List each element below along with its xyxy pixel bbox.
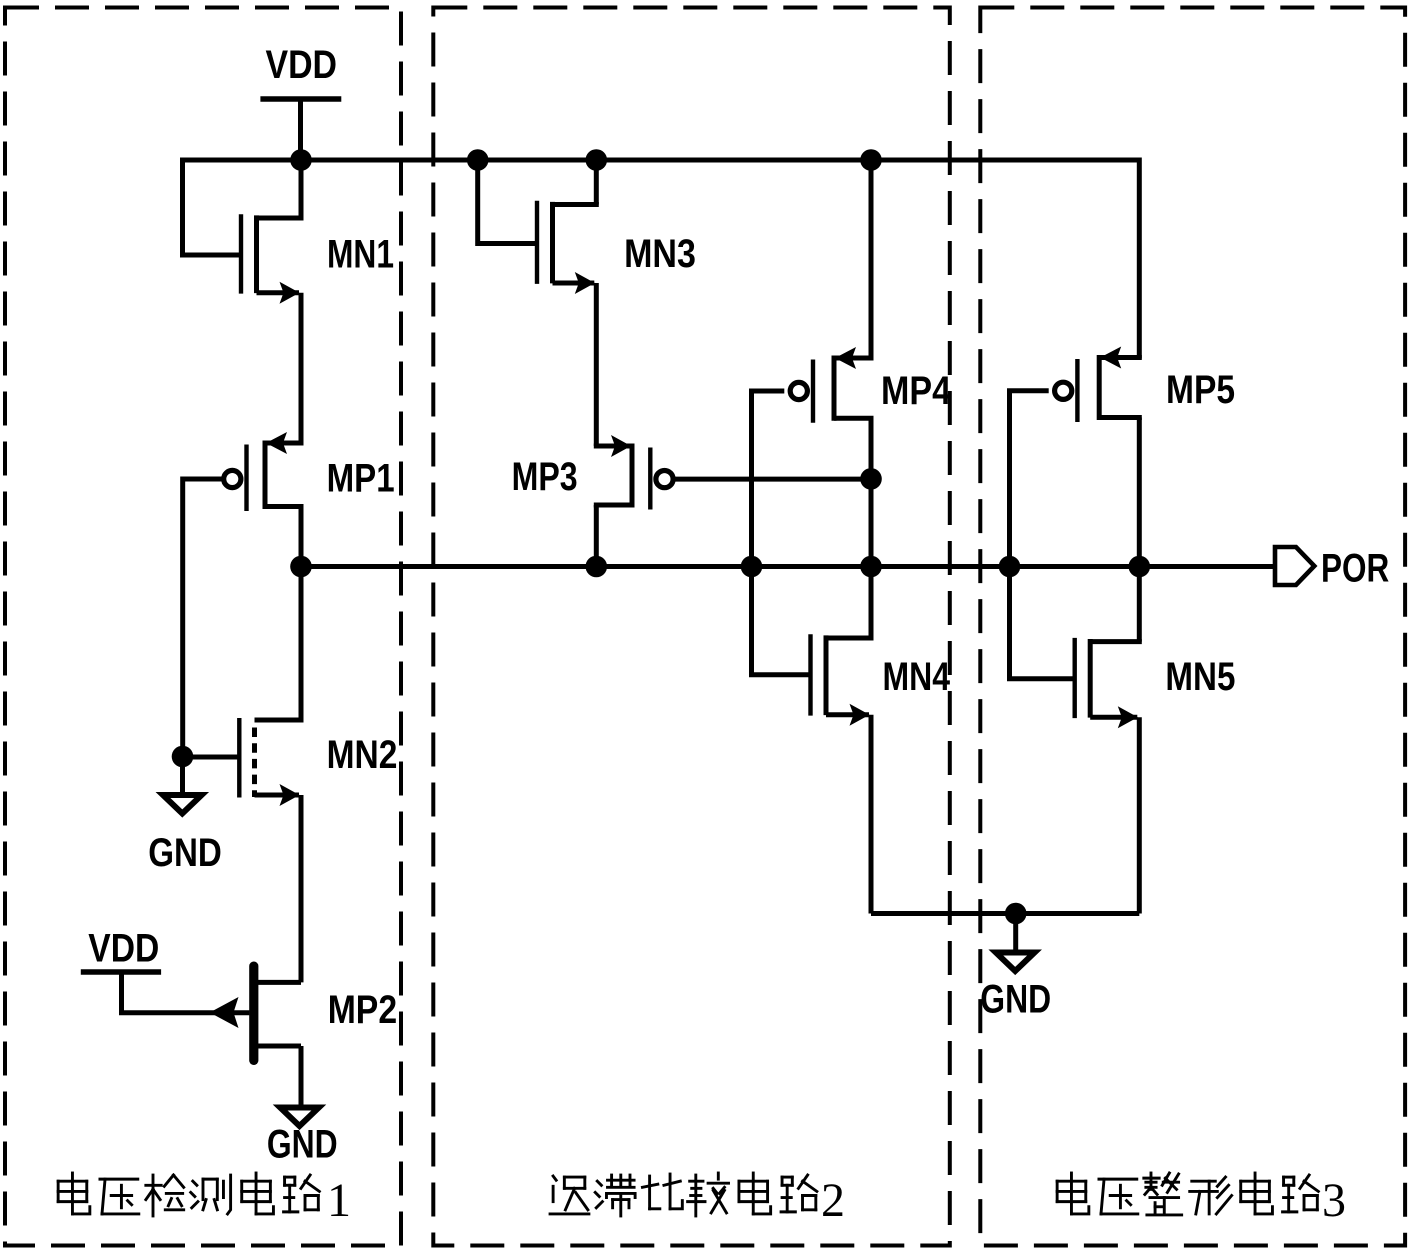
wire: MN1 drain to rail (299, 160, 304, 218)
svg-text:GND: GND (980, 978, 1051, 1022)
power symbol VDD (bottom-left) (81, 969, 161, 975)
wire: node row POR net (301, 564, 1275, 569)
ground symbol GND (below MP2) (280, 1108, 319, 1127)
transistor MN2 (dashed-channel NMOS) (237, 718, 241, 798)
junction dot rail at MP4 source (860, 149, 882, 171)
wire: MP5 gate to node row (1010, 391, 1049, 567)
wire: MP1 gate to MN2 gate node (183, 479, 222, 757)
section title: hysteresis comparator circuit 2 (550, 1176, 589, 1214)
dashed box: voltage shaping circuit 3 (980, 8, 1405, 1246)
svg-text:POR: POR (1321, 546, 1389, 590)
junction dot rail at MN1 drain (290, 149, 312, 171)
junction dot rail at MN3 gate loop (467, 149, 489, 171)
svg-text:VDD: VDD (88, 927, 159, 971)
svg-text:MN5: MN5 (1165, 655, 1235, 699)
svg-text:3: 3 (1322, 1174, 1346, 1227)
transistor MP2 (thick-bar PMOS, gate arrow) (249, 962, 258, 1066)
transistor MP3 (PMOS mirrored) (648, 448, 652, 510)
wire: MN3 source to MP3 source (594, 283, 599, 446)
junction dot node row at MP1 drain (290, 556, 312, 578)
svg-text:GND: GND (267, 1123, 338, 1167)
wire: MN2 source to MP2 top (299, 795, 304, 982)
wire: MP4 drain to node row (869, 418, 874, 566)
section title: voltage detection circuit 1 (58, 1173, 90, 1214)
wire: MP3 gate line to MP4 drain (675, 477, 872, 482)
wire: rail to MP4 source (869, 160, 874, 358)
junction dot node row at MP4/MN4 drains (860, 556, 882, 578)
svg-text:MP2: MP2 (328, 988, 397, 1032)
transistor MN5 (NMOS) (1072, 638, 1076, 718)
svg-text:MN1: MN1 (327, 233, 394, 277)
svg-text:MP5: MP5 (1166, 368, 1235, 412)
transistor MP4 (PMOS) (811, 360, 815, 423)
svg-text:MN2: MN2 (327, 733, 398, 777)
junction dot node row at inverter gate column (741, 556, 763, 578)
junction dot MN2 gate / GND (172, 746, 194, 768)
svg-text:GND: GND (148, 831, 222, 875)
svg-text:MP4: MP4 (881, 369, 951, 413)
output port POR flag (1275, 547, 1314, 585)
section title: voltage shaping circuit 3 (1057, 1173, 1089, 1214)
wire: MN3 drain to rail (594, 160, 599, 205)
wire: MP3 drain to node row (594, 505, 599, 567)
svg-text:1: 1 (327, 1174, 351, 1227)
wire: MP5 drain to node row (1137, 418, 1142, 567)
dashed box: hysteresis comparator circuit 2 (433, 8, 950, 1246)
junction dot node row at MP3 drain (586, 556, 608, 578)
junction dot ground rail (1005, 903, 1027, 925)
ground symbol GND (below MN2 gate) (180, 757, 185, 794)
transistor MN3 (diode-connected NMOS) (535, 201, 539, 284)
junction dot MP4 drain / MP3 gate (860, 468, 882, 490)
wire: MN1 source to MP1 source (299, 293, 304, 443)
power symbol VDD (top) (260, 96, 341, 102)
svg-text:MN4: MN4 (883, 655, 951, 699)
svg-text:VDD: VDD (266, 43, 338, 87)
wire: node row to MN5 gate (1010, 567, 1075, 679)
dashed box: voltage detection circuit 1 (5, 8, 401, 1246)
wire: node row to MN5 drain (1137, 567, 1142, 642)
wire: MP4 gate to MN4 gate (752, 391, 811, 675)
wire: MP1 drain to output node (299, 507, 304, 567)
wire: MN5 source to ground rail (1137, 717, 1142, 913)
junction dot rail at MN3 drain (586, 149, 608, 171)
wire: node row to MN4 drain (869, 567, 874, 639)
wire: MN1 gate loop (183, 160, 242, 255)
wire: MP2 bottom to GND (299, 1046, 304, 1108)
wire: node to MN2 drain (299, 567, 304, 721)
wire: VDD to MP2 gate (122, 972, 250, 1013)
transistor MP5 (PMOS) (1075, 359, 1079, 422)
svg-text:2: 2 (821, 1174, 845, 1227)
junction dot node row at MP5/MN5 drains (1129, 556, 1151, 578)
wire: MN4 source to ground rail (869, 715, 874, 914)
junction dot node row at MN5 gate column (999, 556, 1021, 578)
svg-text:MP3: MP3 (512, 455, 578, 499)
wire: ground rail (871, 911, 1139, 916)
transistor MN4 (NMOS) (808, 634, 812, 715)
wire: VDD rail (183, 160, 1140, 359)
transistor MP1 (PMOS) (244, 445, 248, 512)
transistor MN1 (diode-connected NMOS) (239, 214, 243, 293)
svg-text:MN3: MN3 (624, 232, 696, 276)
svg-text:MP1: MP1 (327, 457, 395, 501)
wire: MN3 gate loop (478, 160, 537, 244)
ground symbol GND (ground rail) (1013, 914, 1018, 953)
